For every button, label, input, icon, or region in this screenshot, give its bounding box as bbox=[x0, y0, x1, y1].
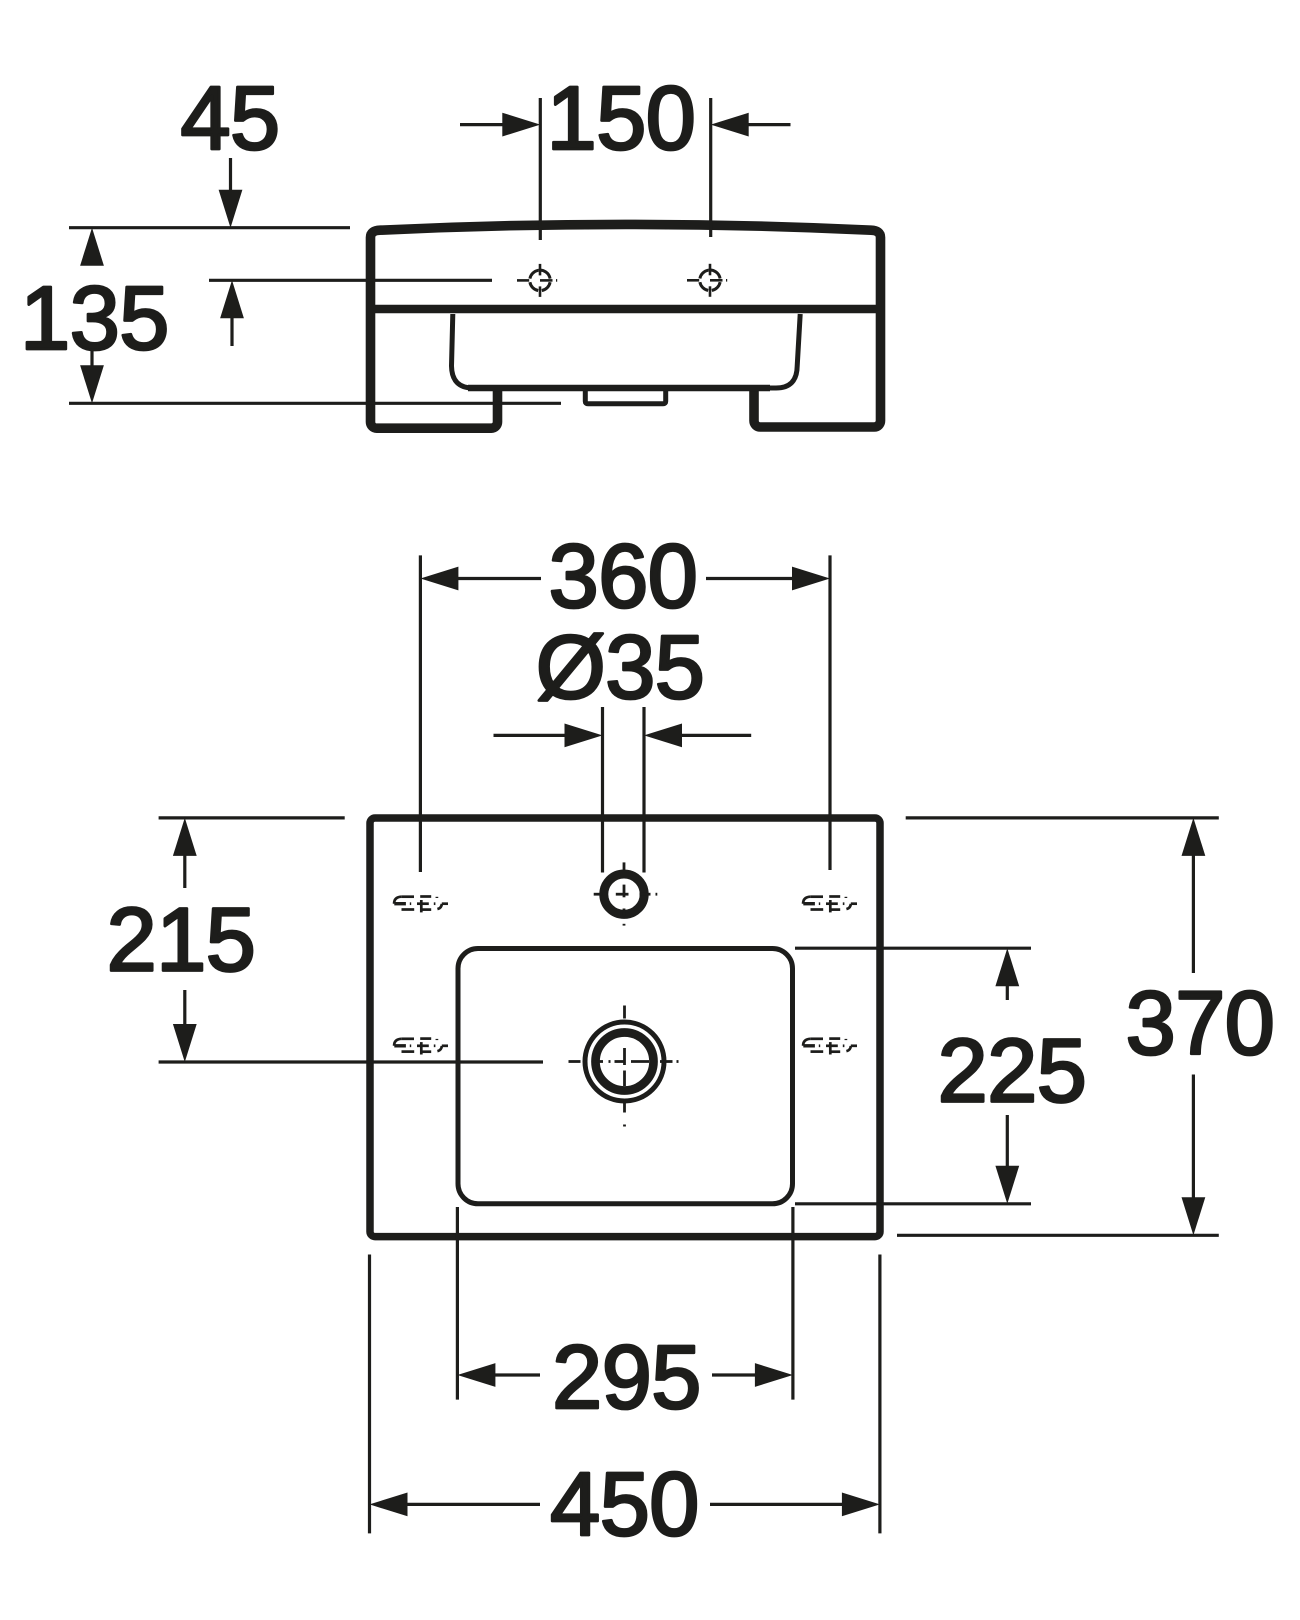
basin bowl inner rounded rectangle (plan) bbox=[458, 949, 793, 1204]
dim 450: extension lines bbox=[368, 1255, 371, 1534]
svg-text:370: 370 bbox=[1126, 974, 1275, 1074]
basin apron bottom edge (thick horizontal) bbox=[375, 305, 876, 314]
dim 225: extension lines bbox=[795, 947, 1031, 950]
dim 295: extension lines bbox=[456, 1207, 459, 1400]
faucet hole Ø35 (plan) bbox=[604, 874, 644, 914]
dim 45: down arrow to top line bbox=[229, 158, 232, 192]
svg-text:150: 150 bbox=[547, 69, 696, 169]
dim 295: arrows bbox=[457, 1363, 495, 1387]
dim Ø35: arrows bbox=[494, 734, 568, 737]
wall fixing slot symbol lower-right (plan) bbox=[803, 1039, 857, 1055]
dim 370: extension lines bbox=[906, 816, 1219, 819]
wall fixing slot symbol upper-right (plan) bbox=[803, 897, 857, 913]
basin underside bottom edge (thick) bbox=[468, 385, 770, 392]
drain tab under basin bbox=[585, 390, 665, 404]
dim 215: arrows bbox=[173, 818, 197, 856]
dim 360: extension lines bbox=[419, 555, 422, 872]
drain (plan): inner thick ring bbox=[596, 1033, 654, 1091]
dim 150: extension lines bbox=[539, 98, 542, 240]
dim 45: lower reference line and up arrow bbox=[209, 279, 492, 282]
dim 150: arrows and lines bbox=[460, 123, 503, 126]
svg-text:135: 135 bbox=[20, 269, 169, 369]
svg-text:295: 295 bbox=[552, 1328, 701, 1428]
dim 215: extension lines bbox=[159, 816, 345, 819]
drain (plan): outer ring bbox=[585, 1022, 664, 1101]
fixing hole crosshair left (front view) bbox=[517, 264, 557, 297]
wall fixing slot symbol lower-left (plan) bbox=[394, 1039, 448, 1055]
dim 135: extension lines bbox=[69, 226, 350, 229]
dim 450: arrows bbox=[370, 1493, 408, 1517]
dim 225: arrows bbox=[995, 948, 1019, 986]
basin outer outline (front view) bbox=[371, 224, 881, 428]
drain centerlines bbox=[569, 1006, 679, 1127]
svg-text:215: 215 bbox=[107, 891, 256, 991]
fixing hole crosshair right (front view) bbox=[687, 264, 727, 297]
svg-text:45: 45 bbox=[180, 69, 279, 169]
wall fixing slot symbol upper-left (plan) bbox=[394, 897, 448, 913]
basin underside recess contour bbox=[452, 314, 801, 388]
svg-text:Ø35: Ø35 bbox=[536, 618, 705, 718]
svg-text:360: 360 bbox=[549, 527, 698, 627]
dim 135: arrows bbox=[80, 228, 104, 266]
svg-text:450: 450 bbox=[550, 1455, 699, 1555]
dim 370: arrows bbox=[1182, 818, 1206, 856]
dim 360: arrows and lines bbox=[420, 567, 458, 591]
svg-text:225: 225 bbox=[938, 1022, 1087, 1122]
basin outer rectangle (plan) bbox=[370, 818, 880, 1237]
dim Ø35: extension lines bbox=[601, 707, 604, 873]
